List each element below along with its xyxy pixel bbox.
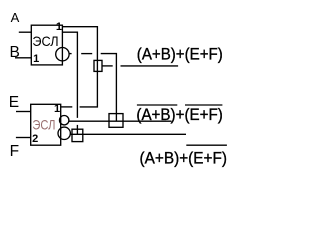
svg-text:F: F	[10, 143, 19, 160]
svg-text:ЭСЛ: ЭСЛ	[32, 116, 55, 132]
svg-text:E: E	[9, 94, 19, 111]
svg-text:1: 1	[56, 21, 62, 33]
svg-text:(A+B)+(E+F): (A+B)+(E+F)	[140, 149, 228, 167]
svg-text:B: B	[10, 44, 20, 61]
svg-text:1: 1	[54, 103, 60, 115]
svg-text:A: A	[11, 10, 20, 25]
svg-text:2: 2	[32, 133, 38, 145]
svg-text:(A+B)+(E+F): (A+B)+(E+F)	[137, 46, 223, 64]
svg-text:(A+B)+(E+F): (A+B)+(E+F)	[136, 106, 222, 124]
svg-text:1: 1	[33, 53, 39, 65]
svg-text:ЭСЛ: ЭСЛ	[32, 33, 58, 49]
